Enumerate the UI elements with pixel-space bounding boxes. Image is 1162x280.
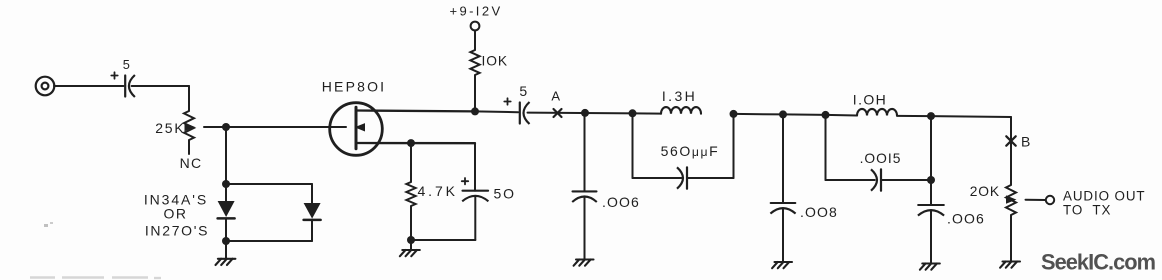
- diode D1: [218, 201, 235, 218]
- wire: [782, 114, 784, 203]
- node junction: [407, 139, 415, 147]
- capacitor C7 .0015: [871, 169, 881, 190]
- watermark SeekIC.com: [1041, 250, 1156, 275]
- value label .006: [602, 194, 640, 210]
- wire: [410, 143, 412, 182]
- svg-text:IN27O'S: IN27O'S: [145, 222, 209, 238]
- wire: [410, 240, 412, 250]
- node junction: [822, 111, 830, 119]
- svg-text:.OO6: .OO6: [947, 210, 985, 226]
- ground: [216, 259, 236, 265]
- node junction: [629, 109, 637, 117]
- wire: [204, 126, 346, 128]
- wire: [1010, 215, 1012, 262]
- potentiometer R1: [184, 111, 194, 140]
- capacitor C2 50uF: [462, 191, 488, 202]
- inductor L2 1.0H: [857, 109, 897, 116]
- wire: [474, 75, 476, 111]
- wire: [733, 114, 735, 178]
- svg-text:TO TX: TO TX: [1063, 203, 1111, 218]
- wire: [474, 197, 476, 240]
- svg-text:HEP8OI: HEP8OI: [322, 78, 387, 94]
- value label 25K: [155, 120, 185, 136]
- svg-text:5: 5: [519, 83, 527, 99]
- ground: [400, 250, 420, 256]
- wire: [826, 179, 875, 181]
- resistor R2 10K: [470, 50, 479, 75]
- wire: [782, 209, 784, 262]
- wiper arrow of R4: [1006, 195, 1017, 203]
- wire: [825, 115, 827, 180]
- svg-text:56OμμF: 56OμμF: [661, 143, 720, 159]
- node junction: [927, 176, 935, 184]
- ground: [772, 262, 792, 268]
- wire: [633, 177, 682, 179]
- svg-text:4.7K: 4.7K: [418, 183, 458, 199]
- svg-text:2OK: 2OK: [970, 184, 1000, 199]
- svg-text:5O: 5O: [494, 186, 516, 202]
- wire: [357, 142, 475, 144]
- label +9-12V: [449, 3, 502, 18]
- capacitor C5 560uuF: [677, 167, 687, 188]
- value label 5 of C3: [519, 83, 527, 99]
- resistor R3 4.7K: [406, 182, 415, 206]
- wire: [132, 85, 190, 87]
- output terminal: [1046, 196, 1054, 204]
- value label .008: [800, 204, 838, 220]
- label HEP801: [322, 78, 387, 94]
- transistor Q1 HEP801: [330, 103, 383, 156]
- wire: [225, 184, 227, 201]
- node junction: [730, 110, 738, 118]
- svg-text:NC: NC: [180, 155, 203, 171]
- diode D2: [304, 203, 321, 220]
- inductor L1 1.3H: [661, 107, 701, 114]
- wire: [474, 143, 476, 191]
- node junction: [407, 236, 415, 244]
- ground: [1000, 262, 1020, 268]
- svg-text:OR: OR: [164, 206, 188, 222]
- label TO TX: [1063, 203, 1111, 218]
- node A mark: [554, 109, 562, 117]
- value label .006: [947, 210, 985, 226]
- node junction: [927, 112, 935, 120]
- node junction: [222, 237, 230, 245]
- wire: [311, 220, 313, 241]
- svg-text:.OO6: .OO6: [602, 194, 640, 210]
- wire: [357, 109, 475, 112]
- wire: [311, 184, 313, 203]
- value label 20K: [970, 184, 1000, 199]
- wire: [411, 239, 475, 241]
- value label 1.0H: [853, 91, 887, 107]
- svg-text:.OO8: .OO8: [800, 204, 838, 220]
- svg-text:5: 5: [123, 57, 131, 72]
- wire: [528, 113, 662, 114]
- wire: [632, 113, 634, 178]
- label B: [1021, 134, 1031, 150]
- value label 10K: [482, 53, 508, 68]
- supply terminal +9-12V: [471, 22, 480, 31]
- svg-text:A: A: [551, 89, 560, 104]
- label 1N270'S: [145, 222, 209, 238]
- svg-text:AUDIO OUT: AUDIO OUT: [1063, 189, 1146, 204]
- wire: [188, 140, 190, 154]
- value label .0015: [860, 151, 902, 166]
- node junction: [581, 109, 589, 117]
- label AUDIO OUT: [1063, 189, 1146, 204]
- wire: [897, 115, 931, 117]
- wire: [226, 183, 312, 185]
- polarity + of C2: [462, 178, 468, 184]
- wire: [687, 177, 734, 179]
- potentiometer R4 20K: [1006, 185, 1016, 215]
- capacitor C1: [125, 75, 135, 97]
- wire: [930, 116, 932, 205]
- wire: [931, 115, 1011, 118]
- wire: [584, 197, 586, 260]
- svg-text:.OOI5: .OOI5: [860, 151, 902, 166]
- wire: [1010, 117, 1012, 185]
- ground: [920, 264, 940, 270]
- label NC: [180, 155, 203, 171]
- wire: [783, 113, 826, 116]
- wire: [734, 113, 784, 116]
- node junction: [779, 110, 787, 118]
- label 1N34A'S: [144, 191, 208, 207]
- svg-text:25K: 25K: [155, 120, 185, 136]
- polarity + of C3: [504, 98, 510, 104]
- label A: [551, 89, 560, 104]
- wire: [410, 206, 412, 240]
- capacitor C6 .008: [770, 203, 795, 214]
- wire: [930, 211, 932, 264]
- polarity + of C1: [111, 72, 117, 78]
- wire: [225, 219, 227, 242]
- node junction: [222, 180, 230, 188]
- wire: [54, 85, 124, 87]
- svg-text:B: B: [1021, 134, 1031, 150]
- wire: [881, 179, 931, 181]
- svg-text:+9-I2V: +9-I2V: [449, 3, 502, 18]
- node junction: [222, 123, 230, 131]
- value label 560uuF: [661, 143, 720, 159]
- capacitor C3: [520, 102, 530, 124]
- svg-text:I.OH: I.OH: [853, 91, 887, 107]
- svg-text:I.3H: I.3H: [662, 88, 697, 104]
- label OR: [164, 206, 188, 222]
- svg-text:IOK: IOK: [482, 53, 508, 68]
- input jack J1: [36, 77, 55, 96]
- wire: [474, 31, 476, 51]
- value label 1.3H: [662, 88, 697, 104]
- ground: [574, 260, 594, 266]
- wire: [584, 113, 586, 191]
- wire: [225, 127, 227, 184]
- wire: [225, 241, 227, 259]
- capacitor C8 .006: [918, 205, 944, 216]
- wire: [826, 114, 858, 117]
- scan artifact marks: [30, 222, 161, 278]
- capacitor C4 .006: [572, 191, 597, 202]
- wire: [188, 86, 190, 111]
- value label 5 of C1: [123, 57, 131, 72]
- wiper arrow of R1: [185, 123, 196, 131]
- wire: [1026, 199, 1046, 201]
- wire: [475, 110, 518, 113]
- svg-text:SeekIC.com: SeekIC.com: [1041, 250, 1156, 275]
- value label 50: [494, 186, 516, 202]
- wire: [226, 240, 312, 242]
- node B mark: [1006, 136, 1015, 145]
- value label 4.7K: [418, 183, 458, 199]
- node junction: [471, 107, 479, 115]
